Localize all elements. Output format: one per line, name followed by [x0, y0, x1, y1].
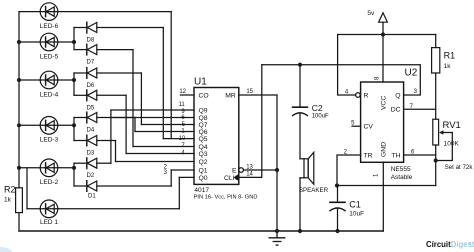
- LED LED 1: [40, 200, 58, 218]
- wire D3 drop to Q2: [115, 141, 117, 162]
- wire DC pin 7: [404, 108, 436, 110]
- wire ground bus: [19, 230, 383, 232]
- svg-text:C1: C1: [349, 199, 361, 209]
- wire LED-5 row: [19, 41, 74, 43]
- capacitor C2: [293, 65, 308, 159]
- svg-text:Q9: Q9: [199, 107, 208, 114]
- wire D4 drop to Q6: [134, 118, 136, 132]
- wire pin Q1: [171, 169, 194, 171]
- wire pin Q4: [133, 146, 194, 148]
- svg-text:15: 15: [246, 89, 253, 95]
- node bus-LED5: [17, 40, 21, 44]
- svg-text:NE555: NE555: [391, 166, 411, 173]
- speaker SPEAKER: [300, 152, 314, 231]
- svg-text:VCC: VCC: [381, 96, 388, 110]
- node bus-LED4: [17, 78, 21, 82]
- svg-text:RV1: RV1: [443, 120, 461, 131]
- svg-text:Q1: Q1: [199, 167, 208, 174]
- wire E pin 13: [243, 169, 277, 171]
- svg-text:Q6: Q6: [199, 129, 208, 136]
- diode D1: [74, 181, 171, 192]
- svg-text:D1: D1: [88, 194, 96, 200]
- node pair-LED5: [72, 40, 76, 44]
- wire pin Q2: [116, 161, 195, 163]
- svg-text:Q4: Q4: [199, 144, 208, 151]
- wire D7 drop to Q4: [132, 50, 134, 147]
- diode D3: [74, 135, 116, 146]
- wire Q0 drop to LED1: [178, 177, 180, 208]
- wire pin Q7: [141, 124, 194, 126]
- wire pin Q3: [126, 153, 194, 155]
- pin E bubble: [239, 168, 244, 173]
- svg-text:Q0: Q0: [199, 175, 208, 182]
- node pair-LED2: [72, 166, 76, 170]
- wire pin stub CO: [180, 94, 194, 96]
- svg-text:1k: 1k: [4, 197, 12, 204]
- svg-text:Q3: Q3: [199, 151, 208, 158]
- LED LED-6: [40, 3, 58, 21]
- svg-text:R1: R1: [444, 51, 456, 61]
- wire pin Q0: [179, 176, 194, 178]
- wire Q9 drop to D2: [110, 110, 112, 163]
- wire GND pin 1 drop: [382, 162, 384, 231]
- wire LED-6 top row: [19, 11, 171, 13]
- svg-text:PIN 16- Vcc, PIN 8- GND: PIN 16- Vcc, PIN 8- GND: [194, 194, 258, 200]
- diode D4: [74, 112, 135, 123]
- svg-text:14: 14: [246, 172, 253, 178]
- wire diode pair link D8-D7: [73, 28, 75, 50]
- svg-text:LED-6: LED-6: [40, 23, 59, 30]
- node E junction: [275, 168, 279, 172]
- wire clock line to 555 output: [262, 65, 421, 95]
- wire D5 drop to Q3: [125, 95, 127, 153]
- wire LED-3 row: [19, 124, 74, 126]
- wire TR-TH-C1 line: [337, 185, 436, 187]
- svg-text:D6: D6: [87, 83, 95, 89]
- wire Q1 drop to D1: [170, 170, 172, 186]
- svg-text:CírcuitDigest: CírcuitDigest: [426, 240, 474, 249]
- svg-text:13: 13: [246, 164, 253, 170]
- svg-text:4017: 4017: [194, 187, 209, 194]
- svg-text:Q5: Q5: [199, 136, 208, 143]
- LED LED-4: [40, 71, 58, 89]
- node C2 top junction: [298, 63, 302, 67]
- wire rail to reset pin 4: [338, 35, 356, 96]
- svg-text:D8: D8: [87, 38, 95, 44]
- node RV1 wiper junction: [434, 158, 438, 162]
- wire diode pair link D6-D5: [73, 73, 75, 95]
- svg-text:5v: 5v: [367, 10, 375, 17]
- wire diode pair link D4-D3: [73, 118, 75, 141]
- svg-text:D7: D7: [87, 60, 95, 66]
- svg-text:R2: R2: [4, 185, 16, 195]
- svg-text:CO: CO: [199, 92, 209, 99]
- diode D7: [74, 44, 133, 55]
- svg-text:10uF: 10uF: [349, 210, 364, 217]
- node bus-LED3: [17, 123, 21, 127]
- potentiometer RV1: [433, 119, 453, 185]
- diode D2: [74, 158, 111, 169]
- resistor R2: [18, 168, 20, 188]
- svg-text:LED-5: LED-5: [40, 53, 59, 60]
- wire diode pair link D2-D1: [73, 163, 75, 186]
- wire LED-1 row: [27, 208, 179, 210]
- node speaker ground junction: [298, 229, 302, 233]
- LED LED-2: [40, 159, 58, 177]
- svg-text:Q2: Q2: [199, 159, 208, 166]
- svg-text:TR: TR: [364, 152, 373, 159]
- svg-text:E: E: [232, 167, 237, 174]
- svg-text:100uF: 100uF: [312, 113, 329, 119]
- svg-text:Q7: Q7: [199, 122, 208, 129]
- svg-text:Q: Q: [395, 92, 400, 99]
- IC U1 4017 counter box: [194, 88, 239, 185]
- node bus-R2: [17, 166, 21, 170]
- svg-text:100K: 100K: [444, 140, 460, 147]
- node TR C1 junction: [335, 183, 339, 187]
- pin R bubble: [356, 93, 361, 98]
- svg-text:D2: D2: [87, 173, 95, 179]
- svg-text:10: 10: [179, 136, 186, 142]
- svg-text:Set at 72k: Set at 72k: [445, 164, 474, 171]
- wire LED6 drop to Q5: [170, 12, 172, 139]
- node ground junction: [275, 229, 279, 233]
- wire TR pin 2: [337, 155, 361, 186]
- wire CV stub pin 5: [352, 125, 361, 127]
- wire VCC drop to U2: [382, 35, 384, 83]
- wire CLK pin 14: [239, 65, 262, 178]
- svg-text:LED-2: LED-2: [40, 179, 59, 186]
- svg-text:Q8: Q8: [199, 115, 208, 122]
- svg-text:LED-4: LED-4: [40, 91, 59, 98]
- LED LED-5: [40, 33, 58, 51]
- capacitor C1: [330, 186, 345, 232]
- pin CLK triangle marker: [234, 174, 239, 181]
- diode D8: [74, 22, 163, 33]
- svg-text:U1: U1: [194, 77, 207, 88]
- IC U2 NE555 box: [361, 82, 404, 162]
- svg-text:11: 11: [178, 102, 185, 108]
- power 5v arrow: [379, 13, 388, 35]
- svg-text:Astable: Astable: [391, 174, 413, 181]
- watermark corner smudge: [0, 247, 12, 252]
- LED LED-3: [40, 117, 58, 135]
- wire D6 drop to Q7: [140, 73, 142, 125]
- svg-text:MR: MR: [225, 92, 236, 99]
- wire D8 drop to Q5: [162, 28, 164, 139]
- svg-text:R: R: [364, 92, 369, 99]
- wire left cathode bus: [18, 12, 20, 168]
- wire pin Q9: [111, 109, 194, 111]
- svg-text:U2: U2: [405, 68, 418, 79]
- resistor R1: [432, 35, 440, 120]
- svg-text:1k: 1k: [444, 63, 452, 70]
- wire 5v rail: [338, 34, 436, 36]
- svg-text:C2: C2: [312, 103, 323, 113]
- svg-text:DC: DC: [391, 107, 401, 114]
- wire TH pin 6: [404, 154, 436, 156]
- node pair-LED3: [72, 123, 76, 127]
- node rail junction: [381, 32, 385, 36]
- svg-text:D5: D5: [87, 105, 95, 111]
- wire pin Q5: [163, 138, 194, 140]
- wire pin Q8: [114, 117, 195, 119]
- diode D6: [74, 68, 141, 79]
- svg-text:TH: TH: [392, 152, 401, 159]
- wire MR pin 15: [239, 94, 277, 96]
- wire pin Q6: [135, 131, 194, 133]
- ground symbol: [269, 231, 285, 245]
- wire LED-4 row: [19, 79, 74, 81]
- svg-text:D4: D4: [87, 128, 95, 134]
- svg-text:CLK: CLK: [224, 175, 238, 182]
- wire LED-2 row: [19, 167, 74, 169]
- svg-text:GND: GND: [381, 142, 388, 157]
- wire MR-E-ground vertical: [276, 95, 278, 231]
- node pair-LED4: [72, 78, 76, 82]
- svg-text:LED-3: LED-3: [40, 137, 59, 144]
- diode D5: [74, 90, 126, 101]
- svg-text:12: 12: [179, 89, 186, 95]
- wire LED-2 to LED-1 link: [26, 168, 28, 209]
- watermark CircuitDigest: [426, 240, 474, 249]
- node C1 ground junction: [335, 229, 339, 233]
- svg-text:CV: CV: [364, 124, 374, 131]
- svg-text:SPEAKER: SPEAKER: [299, 187, 329, 194]
- svg-text:LED 1: LED 1: [40, 219, 58, 226]
- svg-text:D3: D3: [87, 151, 95, 157]
